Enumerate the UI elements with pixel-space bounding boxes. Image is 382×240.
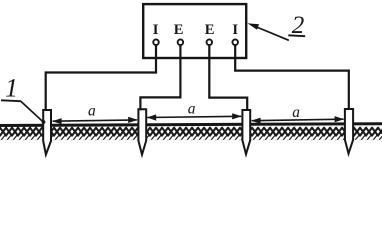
svg-text:I: I	[232, 22, 238, 38]
wire from terminal E (right) to electrode 3	[209, 45, 247, 111]
ground surface line	[0, 124, 382, 126]
svg-text:a: a	[188, 100, 196, 117]
underline of label 1	[1, 99, 21, 102]
terminal circle I (left)	[153, 39, 159, 45]
leader line from label 1 to electrode 1	[21, 101, 43, 121]
instrument box (earth tester)	[143, 4, 246, 58]
svg-text:a: a	[88, 103, 96, 120]
electrode 4 (stake)	[345, 109, 353, 154]
dimension arrow a (between electrodes 1 and 2)	[52, 117, 137, 125]
dimension arrow a (between electrodes 3 and 4)	[251, 116, 344, 124]
terminal circle E (left)	[178, 39, 184, 45]
svg-text:E: E	[174, 22, 184, 38]
ground hatching	[0, 127, 382, 141]
underline of label 2	[288, 34, 305, 37]
svg-text:1: 1	[5, 74, 18, 103]
terminal circle E (right)	[207, 39, 213, 45]
svg-text:I: I	[153, 22, 159, 38]
wire from terminal E (left) to electrode 2	[140, 45, 180, 110]
svg-text:E: E	[205, 22, 215, 38]
wire from terminal I (right) to electrode 4	[235, 45, 349, 110]
leader dot on electrode 1	[42, 120, 46, 124]
terminal circle I (right)	[232, 39, 238, 45]
dimension arrow a (between electrodes 2 and 3)	[147, 113, 242, 120]
svg-text:a: a	[292, 104, 300, 121]
leader arrowhead touching box	[247, 23, 259, 30]
electrode 1 (stake)	[43, 110, 51, 155]
leader line from label 2 to instrument box	[255, 26, 289, 40]
wire from terminal I (left) to electrode 1	[46, 45, 156, 111]
electrode 3 (stake)	[242, 110, 250, 154]
electrode 2 (stake)	[138, 109, 146, 154]
